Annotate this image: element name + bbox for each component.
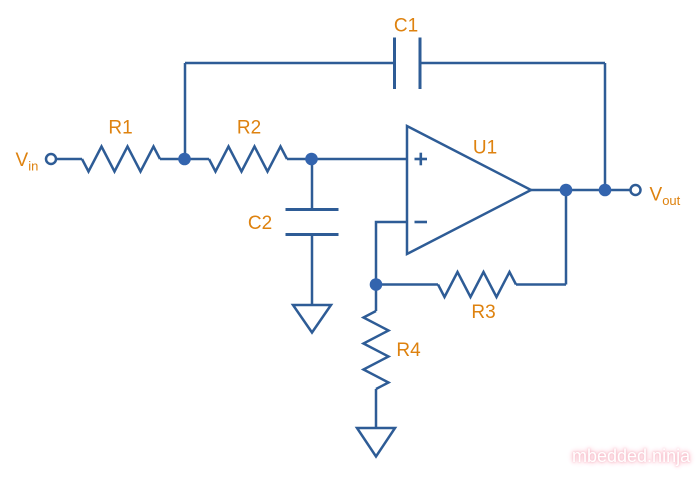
wire R2 to node B xyxy=(287,158,312,161)
node D junction dot (output/R3) xyxy=(560,184,573,197)
terminal Vin xyxy=(46,154,56,164)
wire right drop from top rail to node E xyxy=(604,63,607,190)
watermark mbedded.ninja xyxy=(572,446,697,467)
ground (C2) xyxy=(293,305,331,333)
ground (R4) xyxy=(357,428,395,457)
svg-text:Vin: Vin xyxy=(16,150,39,174)
wire Vin lead xyxy=(56,158,82,161)
node E junction dot (output/C1) xyxy=(599,184,612,197)
resistor R2 xyxy=(209,147,287,172)
op-amp plus sign xyxy=(415,153,428,166)
node A junction dot (R1/R2/C1) xyxy=(178,153,191,166)
op-amp minus sign xyxy=(415,221,428,224)
wire top rail right segment xyxy=(420,62,605,65)
capacitor C1 xyxy=(395,38,421,90)
capacitor C2 xyxy=(286,210,339,235)
wire R1 to node A xyxy=(160,158,185,161)
wire R3 to feedback drop xyxy=(516,283,566,286)
terminal Vout xyxy=(631,185,641,195)
svg-text:R2: R2 xyxy=(237,118,261,139)
wire op-amp output to Vout terminal xyxy=(531,189,631,192)
svg-text:R3: R3 xyxy=(471,302,495,323)
wire node B down to C2 xyxy=(311,159,314,209)
svg-text:Vout: Vout xyxy=(650,185,681,209)
resistor R4 xyxy=(364,311,389,389)
svg-text:R4: R4 xyxy=(396,340,421,361)
svg-text:C1: C1 xyxy=(394,16,418,37)
svg-text:C2: C2 xyxy=(248,213,272,234)
wire inverting input to feedback corner xyxy=(376,222,407,285)
node B junction dot (R2/C2/op-amp) xyxy=(305,153,318,166)
svg-text:R1: R1 xyxy=(108,118,132,139)
wire node D down to R3 row xyxy=(565,190,568,285)
wire node A to R2 xyxy=(185,158,209,161)
wire top rail left segment xyxy=(185,62,395,65)
node C junction dot (inverting/R3/R4) xyxy=(370,278,383,291)
wire node C down to R4 xyxy=(375,285,378,312)
wire node B to op-amp non-inverting input xyxy=(312,158,407,161)
wire left drop from top rail to node A xyxy=(184,63,187,159)
svg-text:U1: U1 xyxy=(473,138,497,159)
op-amp U1 xyxy=(407,126,531,254)
resistor R3 xyxy=(438,272,516,297)
wire R4 to ground xyxy=(375,389,378,428)
wire C2 to ground xyxy=(311,235,314,305)
wire node C to R3 xyxy=(376,283,438,286)
resistor R1 xyxy=(82,147,160,172)
